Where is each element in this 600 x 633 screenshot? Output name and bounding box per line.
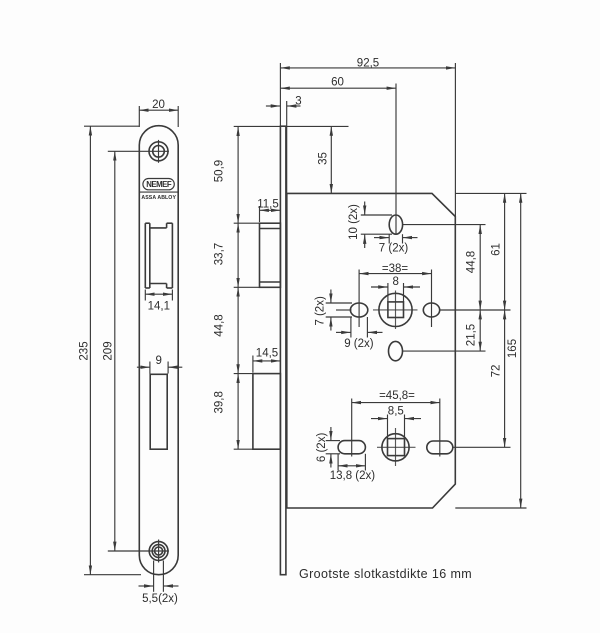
dim 8,5 right arrow segment — [405, 418, 421, 420]
dim 9(2x) extension line left — [350, 317, 352, 338]
dim 45,8 extension line right — [439, 399, 441, 457]
case bottom extension line right — [455, 507, 526, 509]
dim 9(2x) extension line right — [366, 317, 368, 338]
dim 8 extension line right — [403, 283, 405, 302]
svg-text:14,5: 14,5 — [256, 347, 278, 359]
svg-text:=38=: =38= — [382, 263, 409, 275]
bottom screw hole inner circle — [155, 547, 163, 555]
svg-text:92,5: 92,5 — [357, 57, 379, 69]
deadbolt bottom extension line — [234, 448, 281, 450]
plate top extension line to 235 dim — [84, 125, 139, 127]
dim 45,8 extension line left — [351, 399, 353, 457]
top oval centerline extension right — [403, 224, 486, 226]
lower small oval centerline extension right — [403, 350, 486, 352]
latch bolt front top left tab line — [145, 222, 150, 224]
dim 14,5 line — [253, 360, 281, 362]
dim 7(2x) top right arrow segment — [403, 237, 418, 239]
dim 72 line — [504, 310, 506, 447]
dim 6(2x) extension line top — [326, 440, 340, 442]
case top extension line right — [455, 192, 526, 194]
dim 14,1 line — [145, 293, 172, 295]
logo separator line — [139, 191, 178, 193]
dim 10(2x) extension line top — [361, 214, 392, 216]
svg-text:11,5: 11,5 — [257, 199, 279, 211]
top screw cross vertical centerline — [158, 140, 160, 163]
left oval horizontal centerline tick — [336, 309, 352, 311]
dim 20 extension line left — [138, 106, 140, 127]
bottom screw hole middle circle — [152, 545, 165, 558]
dim 38 extension line left — [358, 270, 360, 328]
latch bolt front inner bottom line — [150, 283, 167, 285]
dim 45,8 line — [352, 402, 440, 404]
dim 14,1 extension line right — [171, 290, 173, 301]
bottom hub horizontal centerline — [377, 446, 416, 448]
dim 3 left arrow segment — [266, 105, 280, 107]
right oval hole 9x7 — [423, 303, 439, 317]
bottom right slot 13,8x6 — [427, 441, 453, 454]
dim 6(2x) extension line bottom — [326, 453, 340, 455]
svg-text:=45,8=: =45,8= — [379, 390, 415, 402]
dim 7(2x) spindle extension line top — [326, 302, 352, 304]
svg-text:235: 235 — [78, 341, 90, 360]
svg-text:5,5(2x): 5,5(2x) — [142, 593, 178, 605]
svg-text:61: 61 — [491, 243, 503, 256]
latch bolt front bottom right tab line — [167, 287, 173, 289]
latch bolt front top right tab line — [167, 222, 173, 224]
dim 44,8 left chain line — [237, 287, 239, 373]
dim 38 line — [359, 273, 431, 275]
latch bolt front inner top line — [150, 227, 167, 229]
latch bolt front view right outer edge — [171, 223, 173, 288]
dim 3 right arrow segment — [287, 105, 301, 107]
bottom hub vertical centerline — [395, 428, 397, 466]
svg-text:20: 20 — [152, 99, 165, 111]
svg-text:9 (2x): 9 (2x) — [344, 338, 374, 350]
dim 7(2x) spindle bottom arrow segment — [330, 317, 332, 330]
dim 20 extension line right — [177, 106, 179, 127]
dim 38 extension line right — [431, 270, 433, 328]
svg-text:33,7: 33,7 — [214, 243, 226, 265]
svg-text:50,9: 50,9 — [214, 160, 226, 182]
lock case outline — [287, 193, 456, 508]
dim 10(2x) extension line bottom — [361, 233, 392, 235]
dim 13,8(2x) extension line right — [364, 454, 366, 471]
latch bolt front view left inner edge — [149, 223, 151, 288]
svg-text:44,8: 44,8 — [214, 314, 226, 336]
dim 9 right arrow segment — [168, 366, 182, 368]
svg-text:8: 8 — [392, 276, 398, 288]
svg-text:60: 60 — [331, 77, 344, 89]
top screw cross horizontal centerline + 209 extension line — [108, 150, 169, 152]
dim 44,8 right line — [479, 225, 481, 310]
svg-text:9: 9 — [155, 355, 161, 367]
svg-text:39,8: 39,8 — [214, 391, 226, 413]
left oval hole 9x7 — [350, 303, 367, 317]
svg-text:165: 165 — [507, 339, 519, 358]
dim 165 line — [520, 193, 522, 508]
bottom screw cross vertical centerline — [158, 540, 160, 563]
dim 92,5 line — [280, 67, 455, 69]
svg-text:209: 209 — [103, 341, 115, 360]
svg-text:72: 72 — [491, 365, 503, 378]
dim 92,5 extension line right (case back) — [454, 63, 456, 217]
top screw hole inner circle — [153, 146, 165, 158]
dim 21,5 line — [479, 310, 481, 351]
bottom right slot centerline extension right — [453, 446, 511, 448]
dim 3 extension line right (case front) — [286, 101, 288, 193]
dim 10(2x) bottom arrow segment — [364, 235, 366, 249]
dim 60 line — [280, 87, 396, 89]
latch bolt side inner top line — [260, 228, 281, 230]
svg-text:7 (2x): 7 (2x) — [379, 243, 409, 255]
deadbolt side view rectangle — [253, 374, 281, 450]
dim 7(2x) top extension line right — [402, 234, 404, 243]
svg-text:44,8: 44,8 — [465, 251, 477, 273]
dim 6(2x) bottom arrow segment — [330, 454, 332, 467]
dim 209 line — [114, 151, 116, 551]
dim 5,5(2x) left arrow segment — [139, 585, 154, 587]
latch bolt front view left outer edge — [144, 223, 146, 288]
svg-text:21,5: 21,5 — [465, 324, 477, 346]
spindle hub circle — [379, 293, 412, 326]
spindle horizontal centerline — [373, 309, 418, 311]
latch bottom extension line — [234, 286, 260, 288]
bottom screw hole outer circle — [149, 542, 168, 561]
dim 8 left arrow segment — [371, 286, 388, 288]
bottom left slot 13,8x6 — [338, 441, 365, 454]
dim 235 line — [89, 126, 91, 575]
dim 8,5 extension line right — [404, 415, 406, 439]
dim 9 extension line right — [167, 362, 169, 374]
dim 7(2x) top extension line left — [388, 234, 390, 243]
dim 5,5(2x) extension line left — [153, 561, 155, 592]
dim 14,1 extension line left — [144, 290, 146, 301]
svg-text:14,1: 14,1 — [148, 301, 170, 313]
NEMEF logo oval — [143, 179, 174, 190]
bottom square hole 8,5mm — [388, 439, 405, 456]
svg-text:Grootste slotkastdikte 16 m: Grootste slotkastdikte 16 mm — [299, 567, 472, 581]
faceplate side view strip — [280, 126, 286, 575]
dim 8 right arrow segment — [404, 286, 420, 288]
dim 10(2x) top arrow segment — [364, 202, 366, 215]
svg-text:35: 35 — [318, 152, 330, 165]
dim 5,5(2x) extension line right — [162, 561, 164, 592]
dim 39,8 line — [237, 374, 239, 450]
dim 60 extension line right (follower centerline) — [395, 84, 397, 235]
dim 13,8(2x) line — [338, 465, 365, 467]
dim 14,5 extension line — [252, 356, 254, 373]
dim 92,5 extension line left (faceplate front) — [279, 63, 281, 126]
svg-text:NEMEF: NEMEF — [146, 180, 172, 189]
top extension line across strip (plate top level) — [234, 125, 349, 127]
spindle square hole 8mm — [388, 302, 404, 318]
dim 6(2x) top arrow segment — [330, 427, 332, 440]
latch bolt side inner bottom line — [260, 281, 281, 283]
svg-text:ASSA ABLOY: ASSA ABLOY — [141, 195, 176, 201]
latch top extension line — [234, 222, 260, 224]
dim 8 extension line left — [387, 283, 389, 302]
spindle vertical centerline — [395, 291, 397, 330]
dim 8,5 extension line left — [387, 415, 389, 439]
dim 11,5 line — [260, 209, 281, 211]
svg-text:8,5: 8,5 — [388, 405, 404, 417]
deadbolt front view rectangle — [150, 374, 167, 449]
dim 13,8(2x) extension line left — [337, 454, 339, 471]
dim 7(2x) top left arrow segment — [374, 237, 389, 239]
dim 9 extension line left — [149, 362, 151, 374]
bottom screw cross horizontal centerline + 209 extension line — [108, 550, 169, 552]
spindle centerline extension right — [440, 309, 511, 311]
dim 11,5 extension line — [259, 206, 261, 222]
svg-text:7 (2x): 7 (2x) — [315, 296, 327, 326]
svg-text:10 (2x): 10 (2x) — [348, 204, 360, 240]
dim 9(2x) right arrow segment — [368, 331, 383, 333]
latch bolt front view right inner edge top — [166, 223, 168, 228]
latch bolt front view right inner edge bottom — [166, 284, 168, 289]
bottom hub circle — [382, 434, 409, 461]
dim 8,5 left arrow segment — [371, 418, 387, 420]
dim 33,7 line — [237, 223, 239, 287]
dim 5,5(2x) right arrow segment — [164, 585, 179, 587]
lower small oval hole 7x10 — [389, 341, 403, 360]
dim 7(2x) spindle extension line bottom — [326, 316, 352, 318]
top screw hole outer circle — [149, 142, 168, 161]
top oval hole 7x10 — [389, 215, 402, 234]
dim 35 line — [330, 126, 332, 193]
dim 50,9 line — [237, 127, 239, 224]
dim 9(2x) left arrow segment — [336, 331, 351, 333]
dim 7(2x) spindle top arrow segment — [330, 290, 332, 303]
svg-text:13,8 (2x): 13,8 (2x) — [330, 470, 376, 482]
dim 61 line — [504, 193, 506, 310]
dim 20 line — [139, 109, 178, 111]
deadbolt top extension line — [234, 373, 253, 375]
dim 9 left arrow segment — [137, 366, 150, 368]
latch bolt side view rectangle — [260, 223, 281, 287]
plate bottom extension line to 235 dim — [84, 574, 141, 576]
faceplate front view outline — [139, 126, 178, 575]
latch bolt front bottom left tab line — [145, 287, 150, 289]
svg-text:6 (2x): 6 (2x) — [316, 433, 328, 463]
